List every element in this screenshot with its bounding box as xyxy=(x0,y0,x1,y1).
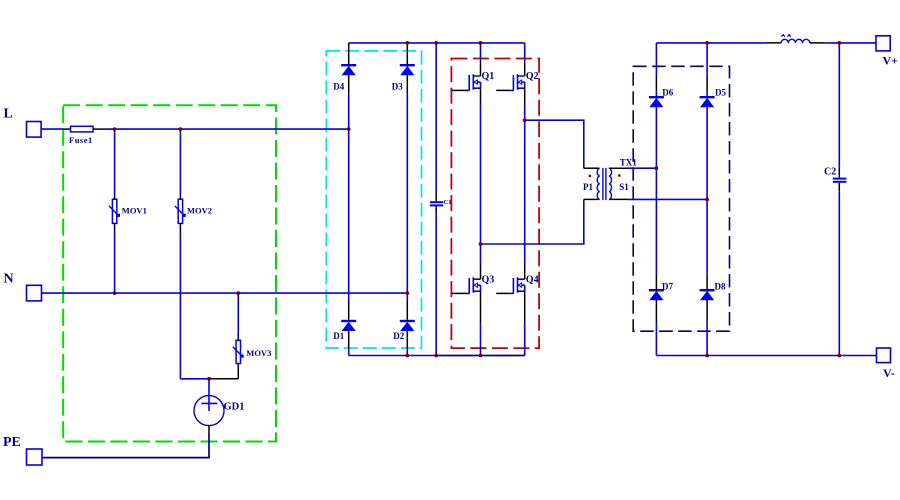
varistor MOV1 xyxy=(109,129,147,293)
svg-text:C1: C1 xyxy=(444,199,452,206)
junction N-MOV1 xyxy=(113,291,117,295)
terminal V- xyxy=(877,348,895,380)
diode D1 xyxy=(333,301,356,356)
transformer TX1 polarity dot primary xyxy=(589,175,591,177)
junction top rail C1 xyxy=(434,41,438,45)
svg-text:TX1: TX1 xyxy=(620,158,638,168)
fuse Fuse1 body xyxy=(69,126,93,145)
terminal L xyxy=(4,107,42,138)
svg-text:L: L xyxy=(4,107,13,122)
svg-text:Q2: Q2 xyxy=(526,71,539,82)
wire output bottom rail xyxy=(656,355,876,357)
terminal PE xyxy=(3,435,42,465)
wire D3 anode to N junction and down to D2 xyxy=(406,93,408,301)
svg-text:Q1: Q1 xyxy=(482,71,495,82)
input rectifier dashed box (cyan) xyxy=(326,51,421,348)
MOSFET Q1 xyxy=(452,43,494,104)
junction L-left leg xyxy=(347,127,351,131)
wire node B to transformer primary top xyxy=(525,120,584,168)
svg-text:C2: C2 xyxy=(824,167,836,178)
junction secondary bottom xyxy=(705,198,709,202)
wire Q2 source to node B to Q4 drain xyxy=(524,104,526,264)
junction N-right leg xyxy=(405,291,409,295)
wire PE net vertical xyxy=(208,433,210,458)
junction subrail-GD1 xyxy=(207,377,211,381)
svg-text:D7: D7 xyxy=(662,282,673,292)
inductor L1 left pin xyxy=(765,42,781,44)
wire sub-rail MOV2 to GD1 xyxy=(180,378,209,380)
gas discharge tube GD1 xyxy=(194,379,245,426)
wire output top rail left xyxy=(656,42,765,44)
transformer TX1 primary pin bottom xyxy=(584,198,599,200)
transformer TX1 primary winding P1 xyxy=(597,168,600,199)
svg-text:PE: PE xyxy=(3,435,21,450)
junction secondary top xyxy=(655,166,659,170)
diode D8 xyxy=(700,274,726,356)
diode D4 xyxy=(333,43,356,94)
svg-text:MOV1: MOV1 xyxy=(122,206,147,216)
wire D4 anode to L junction and down to D1 xyxy=(348,93,350,301)
MOSFET Q2 xyxy=(496,43,538,104)
svg-text:D6: D6 xyxy=(662,87,673,97)
diode D2 xyxy=(393,301,415,356)
diode D5 xyxy=(700,43,727,107)
inductor L1 right pin xyxy=(810,42,826,44)
svg-text:Fuse1: Fuse1 xyxy=(69,135,93,145)
svg-text:GD1: GD1 xyxy=(224,402,245,413)
MOSFET Q4 xyxy=(496,264,538,356)
diode D6 xyxy=(649,43,674,107)
svg-text:D8: D8 xyxy=(715,282,726,292)
svg-text:D3: D3 xyxy=(392,82,403,92)
MOSFET Q3 xyxy=(452,264,494,356)
wire Q1 source to node A to Q3 drain xyxy=(480,104,482,264)
junction node A xyxy=(479,242,483,246)
EMI/surge protection dashed box (green) xyxy=(63,105,276,441)
junction top rail Q1 xyxy=(479,41,483,45)
output rectifier dashed box (navy) xyxy=(633,66,729,331)
wire transformer primary bottom to node A xyxy=(481,199,584,244)
inductor L1 xyxy=(781,35,810,43)
svg-text:Q3: Q3 xyxy=(482,274,495,285)
svg-text:MOV3: MOV3 xyxy=(246,348,271,358)
wire input bridge top rail xyxy=(349,42,525,44)
terminal N xyxy=(4,271,42,301)
wire input bridge bottom rail right xyxy=(436,355,525,357)
junction output bottom rail D8 xyxy=(705,354,709,358)
fuse F1 left pin xyxy=(64,128,71,130)
junction N-MOV3 xyxy=(236,291,240,295)
junction top rail D3 xyxy=(405,41,409,45)
fuse F1 right pin xyxy=(93,128,108,130)
wire secondary bottom to output bridge right leg xyxy=(627,198,707,200)
GD1 bottom pin xyxy=(208,426,210,433)
wire D6 anode down to secondary junction and D7 xyxy=(655,107,657,274)
wire PE net horizontal xyxy=(42,457,210,459)
wire L rail xyxy=(108,128,349,130)
junction output top rail D5 xyxy=(705,41,709,45)
transformer TX1 labels xyxy=(583,158,637,192)
junction bottom rail D2 xyxy=(405,354,409,358)
wire N rail xyxy=(42,292,408,294)
wire secondary top to output bridge left leg xyxy=(627,167,656,169)
junction L-MOV2 xyxy=(179,127,183,131)
wire output top rail right to V+ xyxy=(825,42,876,44)
svg-text:V-: V- xyxy=(883,366,895,380)
transformer TX1 polarity dot secondary xyxy=(618,174,620,176)
varistor MOV2 xyxy=(175,129,212,379)
transformer TX1 core xyxy=(602,168,604,200)
wire input bridge bottom rail left xyxy=(349,355,437,357)
wire D5 anode down to secondary junction and D8 xyxy=(706,107,708,274)
transformer TX1 secondary pin top xyxy=(609,167,627,169)
svg-text:MOV2: MOV2 xyxy=(187,206,212,216)
svg-text:D5: D5 xyxy=(715,87,726,97)
junction bottom rail C1 xyxy=(434,354,438,358)
junction node B xyxy=(523,118,527,122)
svg-text:D4: D4 xyxy=(333,82,344,92)
junction output top rail C2 xyxy=(837,41,841,45)
svg-text:N: N xyxy=(4,271,14,286)
diode D7 xyxy=(649,274,674,356)
junction output bottom rail C2 xyxy=(837,354,841,358)
svg-text:D2: D2 xyxy=(393,331,404,341)
capacitor C2 xyxy=(824,43,846,356)
transformer TX1 secondary pin bottom xyxy=(609,198,627,200)
capacitor C1 xyxy=(430,43,452,356)
svg-text:P1: P1 xyxy=(583,182,593,192)
svg-text:S1: S1 xyxy=(619,182,629,192)
diode D3 xyxy=(392,43,415,94)
terminal V+ xyxy=(876,36,898,68)
wire sub-rail GD1 to MOV3 xyxy=(209,378,238,380)
transformer TX1 secondary winding S1 xyxy=(609,168,612,199)
H-bridge dashed box (red) xyxy=(451,59,539,349)
junction bottom rail Q3 xyxy=(479,354,483,358)
svg-text:D1: D1 xyxy=(333,331,344,341)
wire L terminal to fuse xyxy=(41,128,63,130)
varistor MOV3 xyxy=(233,293,272,379)
svg-text:Q4: Q4 xyxy=(526,274,539,285)
transformer TX1 primary pin top xyxy=(584,167,599,169)
junction L-MOV1 xyxy=(113,127,117,131)
svg-text:V+: V+ xyxy=(883,54,899,68)
